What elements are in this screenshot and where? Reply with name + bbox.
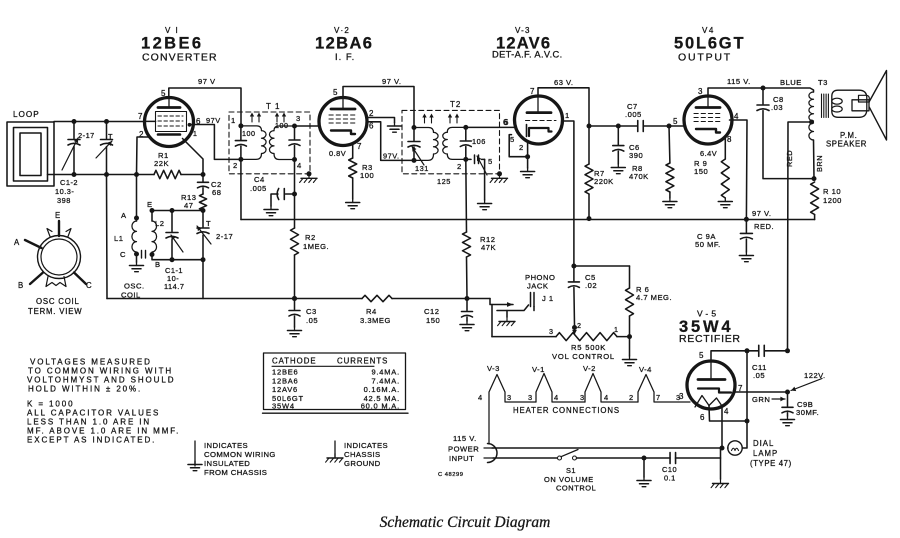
svg-text:125: 125 (437, 177, 451, 186)
svg-text:22K: 22K (154, 159, 169, 168)
svg-text:C 48299: C 48299 (438, 472, 463, 478)
svg-text:INDICATES: INDICATES (204, 441, 248, 450)
R5 wiper (572, 325, 577, 335)
wire R12 top (465, 159, 468, 232)
svg-text:COMMON WIRING: COMMON WIRING (204, 450, 276, 459)
svg-text:C: C (86, 281, 92, 290)
phono jack symbol (490, 293, 534, 311)
svg-text:7.4MA.: 7.4MA. (371, 376, 400, 385)
svg-text:1: 1 (614, 325, 619, 334)
svg-text:HOLD WITHIN ± 20%.: HOLD WITHIN ± 20%. (28, 385, 142, 394)
node C6 top (616, 124, 621, 129)
svg-text:(TYPE 47): (TYPE 47) (750, 459, 792, 468)
node dial lamp left (720, 446, 725, 451)
trimmer T osc (197, 211, 211, 260)
node R13 bottom E-line (201, 208, 206, 213)
capacitor C5 .02 (568, 266, 579, 325)
svg-text:3: 3 (528, 393, 533, 402)
speaker cone (869, 71, 886, 141)
legend insulated text (204, 441, 276, 477)
wire V5 pin5 up (711, 351, 759, 362)
tube V2 12BA6 (319, 98, 367, 146)
chassis ground T2 (490, 174, 507, 183)
resistor R2 1MEG (291, 194, 299, 299)
label 106 (472, 137, 486, 146)
svg-text:.005: .005 (625, 110, 642, 119)
svg-text:5: 5 (488, 157, 493, 166)
label 131 (415, 164, 429, 173)
label CONTROL (556, 484, 596, 493)
svg-text:INDICATES: INDICATES (344, 441, 388, 450)
label E term (55, 211, 61, 220)
heater pin 3 i (676, 393, 681, 402)
resistor R9 150 (721, 159, 729, 198)
label OSC COIL box (121, 282, 145, 300)
term view spoke A (25, 240, 42, 248)
ground R6 R5 (623, 337, 637, 366)
V3 grid dash (526, 120, 557, 122)
chassis ground power (711, 458, 728, 488)
resistor R3 100 (349, 158, 357, 178)
V3 cathode bracket (529, 128, 552, 136)
node C8 top (761, 86, 766, 91)
svg-text:50L6GT: 50L6GT (674, 35, 745, 53)
wire V2 pin5 to 97V (343, 87, 414, 128)
svg-text:S1: S1 (566, 466, 576, 475)
label 97V at T2 primary (383, 152, 400, 161)
node T2 pin1 top (412, 125, 417, 130)
svg-text:7: 7 (357, 142, 362, 151)
tube V4 50L6GT (684, 96, 732, 144)
label OSC COIL term view (36, 297, 80, 306)
label 115 V (727, 77, 751, 86)
T1 secondary capacitor (289, 126, 300, 160)
ground V3 cathode (521, 168, 535, 178)
resistor R12 47K (463, 232, 471, 257)
svg-text:INPUT: INPUT (449, 454, 474, 463)
svg-text:OSC COIL: OSC COIL (36, 297, 80, 306)
svg-text:2: 2 (457, 162, 462, 171)
svg-text:.03: .03 (771, 103, 783, 112)
label V1 pin 5 (161, 89, 166, 98)
svg-text:12BA6: 12BA6 (272, 376, 299, 385)
label R9 (694, 159, 708, 176)
node R8 top (667, 124, 672, 129)
svg-text:4: 4 (604, 393, 609, 402)
svg-text:EXCEPT AS INDICATED.: EXCEPT AS INDICATED. (27, 436, 156, 445)
wire 115V to T3 (763, 88, 814, 92)
svg-text:T: T (206, 219, 211, 228)
label 2-17 antenna trimmer (78, 131, 95, 140)
legend insulated symbol (188, 441, 202, 471)
svg-text:JACK: JACK (527, 282, 548, 291)
svg-text:LESS THAN 1.0 ARE IN: LESS THAN 1.0 ARE IN (27, 418, 151, 427)
svg-text:97 V.: 97 V. (382, 77, 402, 86)
label BLUE (780, 78, 802, 87)
svg-text:T2: T2 (450, 100, 461, 109)
label 122V arrow (791, 371, 826, 391)
label V1 pin 6 (196, 117, 201, 126)
label 0.8V (329, 149, 346, 158)
term view tab bottom (46, 277, 66, 287)
svg-text:TERM. VIEW: TERM. VIEW (28, 307, 82, 316)
svg-text:115 V.: 115 V. (727, 77, 751, 86)
label V1 pin 2 (139, 130, 144, 139)
svg-text:GROUND: GROUND (344, 459, 381, 468)
resistor R13 47 (199, 194, 206, 211)
node C1-2 bottom (72, 172, 77, 177)
heater V-3 label (487, 364, 500, 373)
tube V5 35W4 envelope (687, 361, 735, 409)
label R10 (823, 187, 842, 205)
svg-text:63 V.: 63 V. (554, 78, 574, 87)
wire R12 bottom (466, 257, 469, 299)
svg-text:390: 390 (629, 151, 643, 160)
node C osc (134, 252, 139, 257)
label C term (86, 281, 92, 290)
svg-text:LOOP: LOOP (13, 110, 40, 119)
wire R3 to ground (352, 178, 354, 199)
label 12BA6 (315, 35, 373, 53)
svg-text:ALL CAPACITOR VALUES: ALL CAPACITOR VALUES (27, 409, 160, 418)
label R5 pin 3 (549, 327, 554, 336)
svg-text:B: B (18, 281, 24, 290)
resistor R4 3.3MEG (362, 295, 392, 301)
V3 diode plates (526, 125, 528, 137)
label 6.4V (700, 149, 717, 158)
svg-text:L1: L1 (114, 234, 123, 243)
chassis ground T1 (300, 174, 317, 183)
T2 tuning arrows left (422, 114, 433, 124)
wire T1 pin2 to 97V bus (240, 159, 242, 219)
label OUTPUT (678, 52, 732, 64)
wire V1 pin6 to T1 bottom (191, 125, 241, 160)
label DET (492, 50, 563, 60)
label C11 (752, 363, 767, 380)
label T2 pin 6 (503, 118, 508, 127)
label C1-2 value (55, 178, 78, 205)
T1 primary coil (241, 126, 266, 159)
label 97V at V1 pin6 (206, 116, 221, 125)
T1 primary capacitor (235, 126, 246, 159)
svg-text:CONTROL: CONTROL (556, 484, 596, 493)
svg-text:2-17: 2-17 (216, 232, 233, 241)
svg-text:0.1: 0.1 (664, 474, 676, 483)
capacitor C7 .005 (618, 121, 669, 132)
capacitor C12 150 (462, 299, 473, 322)
label V3 header (515, 26, 531, 35)
label E osc (147, 200, 153, 209)
label V3 pin 6 (504, 118, 509, 127)
node R7 bus (587, 216, 592, 221)
label V3 pin 7 (530, 87, 535, 96)
ground R8 (663, 198, 677, 208)
label T1 pin 4 (297, 161, 302, 170)
ground R9 (718, 198, 732, 208)
label V2 pin 7 (357, 142, 362, 151)
T2 tuning arrows right (448, 114, 459, 124)
T2 secondary coil (443, 127, 466, 159)
node pin6 junction (745, 419, 750, 424)
svg-text:R2: R2 (305, 233, 316, 242)
node 122V (785, 390, 790, 395)
heater pin 3 e (580, 393, 585, 402)
label C4 (250, 175, 267, 193)
capacitor C9A 50MF (740, 219, 752, 252)
label V2 header (334, 26, 350, 35)
svg-text:220K: 220K (594, 177, 614, 186)
node C10 left junction (642, 456, 647, 461)
T1 tuning arrows left (250, 113, 261, 123)
svg-text:C4: C4 (254, 175, 265, 184)
svg-text:POWER: POWER (448, 445, 479, 454)
svg-text:4.7 MEG.: 4.7 MEG. (636, 293, 672, 302)
label T2 (450, 100, 461, 109)
V3 pin5-2 bracket (509, 135, 527, 157)
svg-text:3: 3 (549, 327, 554, 336)
label R1 (154, 151, 169, 168)
svg-text:.05: .05 (753, 371, 765, 380)
wire T1 pin4 down (294, 160, 296, 195)
svg-text:VOLTAGES MEASURED: VOLTAGES MEASURED (30, 358, 152, 367)
svg-text:47K: 47K (481, 243, 496, 252)
node T1 box corner (307, 171, 312, 176)
svg-text:30MF.: 30MF. (796, 408, 819, 417)
wire V2 pin6 to T2 (367, 122, 415, 161)
wire loop inner tap (48, 174, 137, 176)
svg-text:R5 500K: R5 500K (571, 343, 606, 352)
label V5 pin 6 (700, 413, 705, 422)
label V5 pin 5 (699, 351, 704, 360)
svg-text:.005: .005 (250, 184, 267, 193)
svg-text:SPEAKER: SPEAKER (826, 140, 867, 149)
node grid junction A (134, 172, 139, 177)
ground C6 (611, 164, 625, 174)
label DIAL LAMP (750, 439, 792, 468)
label T2 pin 2 (457, 162, 462, 171)
svg-text:1200: 1200 (823, 196, 842, 205)
label C osc (120, 250, 126, 259)
label C8 (771, 95, 784, 112)
svg-text:2: 2 (577, 321, 582, 330)
node R12 bus (465, 296, 470, 301)
node V3 cathode junction (525, 154, 530, 159)
term view tab top (47, 229, 71, 237)
label C10 (662, 465, 677, 483)
svg-text:INSULATED: INSULATED (204, 459, 250, 468)
label V5 pin 3 (679, 392, 684, 401)
table header (272, 357, 388, 366)
label C7 (625, 102, 642, 119)
capacitor C11 .05 (759, 345, 788, 356)
label IF (335, 52, 355, 63)
svg-text:DIAL: DIAL (753, 439, 774, 448)
V1 pin7 stub (145, 120, 156, 122)
svg-text:A: A (14, 238, 20, 247)
node T1 pin2 (238, 157, 243, 162)
svg-text:0.16M.A.: 0.16M.A. (364, 385, 400, 394)
svg-text:97 V.: 97 V. (752, 209, 772, 218)
svg-text:8: 8 (727, 135, 732, 144)
svg-text:V-1: V-1 (532, 365, 545, 374)
label 125 (437, 177, 451, 186)
svg-text:12AV6: 12AV6 (272, 385, 298, 394)
capacitor C9B 30MF (782, 392, 793, 416)
label V3 pin 1 (565, 111, 570, 120)
svg-text:3: 3 (676, 393, 681, 402)
svg-text:CONVERTER: CONVERTER (142, 52, 218, 64)
svg-text:3: 3 (698, 87, 703, 96)
wire BRN T3 bottom (813, 140, 816, 179)
svg-text:TO COMMON WIRING WITH: TO COMMON WIRING WITH (28, 367, 173, 376)
node R7 top (587, 124, 592, 129)
svg-text:6: 6 (700, 413, 705, 422)
label V5 pin 7 (738, 384, 743, 393)
wire V1 pin5 to 97V rail (169, 88, 241, 126)
svg-text:4: 4 (478, 393, 483, 402)
table rows (272, 368, 400, 411)
label 97 V rail V1 (198, 77, 216, 86)
node C9A junction (744, 217, 749, 222)
svg-text:60.0 M.A.: 60.0 M.A. (361, 401, 400, 410)
label L2 (155, 219, 164, 228)
label 97V bus (752, 209, 772, 218)
capacitor C3 .05 (289, 299, 300, 328)
node R10 top (812, 176, 817, 181)
resistor R1 22K (137, 170, 204, 178)
svg-text:J 1: J 1 (542, 294, 554, 303)
svg-text:5: 5 (161, 89, 166, 98)
T3 secondary loops (832, 98, 842, 112)
svg-text:CURRENTS: CURRENTS (337, 357, 388, 366)
node T3 tap (809, 120, 814, 125)
svg-text:BLUE: BLUE (780, 78, 802, 87)
capacitor C8 .03 (757, 88, 814, 179)
svg-text:VOL CONTROL: VOL CONTROL (552, 352, 615, 361)
label 50L6GT (674, 35, 745, 53)
heater V-1 label (532, 365, 545, 374)
V1 plate bar (158, 99, 180, 108)
V5 plate bar (698, 363, 725, 380)
svg-text:FROM CHASSIS: FROM CHASSIS (204, 468, 267, 477)
label 115V POWER INPUT (448, 434, 479, 463)
svg-text:2: 2 (519, 143, 524, 152)
label T3 (818, 78, 828, 87)
svg-text:4: 4 (297, 161, 302, 170)
switch S1 (558, 450, 579, 461)
wire V4 pin4 to bus (730, 120, 748, 219)
heater V-4 label (639, 365, 652, 374)
97V B+ bus (241, 219, 815, 221)
svg-text:12BE6: 12BE6 (272, 368, 299, 377)
svg-text:VOLTOHMYST AND SHOULD: VOLTOHMYST AND SHOULD (27, 376, 175, 385)
svg-text:CATHODE: CATHODE (272, 357, 317, 366)
label V1 pin 1 (193, 131, 197, 138)
svg-text:R4: R4 (366, 307, 377, 316)
label B term (18, 281, 24, 290)
label CONVERTER (142, 52, 218, 64)
label 12BE6 (141, 35, 203, 53)
svg-text:1: 1 (565, 111, 570, 120)
wire V5 pin4 down (721, 406, 723, 448)
capacitor C-B tiny (142, 251, 146, 259)
svg-text:97 V: 97 V (198, 77, 216, 86)
label L1 (114, 234, 123, 243)
wire E line (152, 210, 203, 212)
node T osc bottom (201, 257, 206, 262)
svg-text:CHASSIS: CHASSIS (344, 450, 381, 459)
legend chassis text (344, 441, 388, 468)
svg-text:7: 7 (138, 112, 143, 121)
svg-text:A: A (121, 211, 127, 220)
svg-text:.05: .05 (306, 316, 318, 325)
label PHONO JACK (525, 273, 555, 291)
wire switch to C10 (577, 457, 671, 459)
label T1 pin 1 (231, 116, 236, 125)
ground C4 (264, 206, 278, 216)
label R13 (181, 193, 196, 210)
T3 primary coil upper (809, 92, 814, 121)
svg-text:OSC.: OSC. (124, 282, 145, 291)
svg-text:RED.: RED. (754, 222, 774, 231)
svg-text:12BE6: 12BE6 (141, 35, 203, 53)
dial lamp (728, 441, 742, 455)
node C11 right (785, 348, 790, 353)
label A osc (121, 211, 127, 220)
label T antenna trimmer (108, 132, 113, 141)
capacitor C1-1 osc tuning (166, 211, 183, 260)
svg-text:35W4: 35W4 (272, 401, 295, 410)
heater pin 2 g (629, 393, 634, 402)
label V-5 (697, 309, 719, 319)
svg-text:V-5: V-5 (697, 309, 719, 319)
node trimmer bottom (104, 172, 109, 177)
speaker voice coil (852, 95, 869, 111)
svg-text:4: 4 (724, 407, 729, 416)
wire osc bottom line (152, 255, 203, 260)
resistor R6 4.7MEG (626, 266, 634, 337)
svg-text:68: 68 (212, 188, 221, 197)
svg-text:3.3MEG: 3.3MEG (360, 316, 391, 325)
svg-text:100: 100 (275, 121, 289, 130)
svg-text:V-2: V-2 (583, 364, 596, 373)
svg-text:5: 5 (510, 135, 515, 144)
svg-text:C1-2: C1-2 (60, 178, 78, 187)
ground switch line (637, 458, 651, 487)
ground C12 (460, 321, 474, 331)
ground R3 (346, 199, 360, 209)
heater pin 4 a (478, 393, 483, 402)
loop antenna label (13, 110, 40, 119)
label GRN arrow (752, 395, 785, 404)
loop antenna L-A (7, 122, 54, 186)
label R4 (360, 307, 391, 325)
svg-text:100: 100 (242, 129, 256, 138)
label V5 pin 4 (724, 407, 729, 416)
svg-text:6.4V: 6.4V (700, 149, 717, 158)
heater tent V2 (585, 374, 638, 403)
svg-text:0.8V: 0.8V (329, 149, 346, 158)
label 63 V (554, 78, 574, 87)
caption (380, 514, 551, 531)
svg-text:T3: T3 (818, 78, 828, 87)
label T1 100 right (275, 121, 289, 130)
svg-text:100: 100 (360, 171, 374, 180)
svg-text:GRN: GRN (752, 395, 770, 404)
label V2 pin 6 (369, 122, 374, 131)
label VOL CONTROL (552, 352, 615, 361)
coil L1 (132, 221, 137, 252)
